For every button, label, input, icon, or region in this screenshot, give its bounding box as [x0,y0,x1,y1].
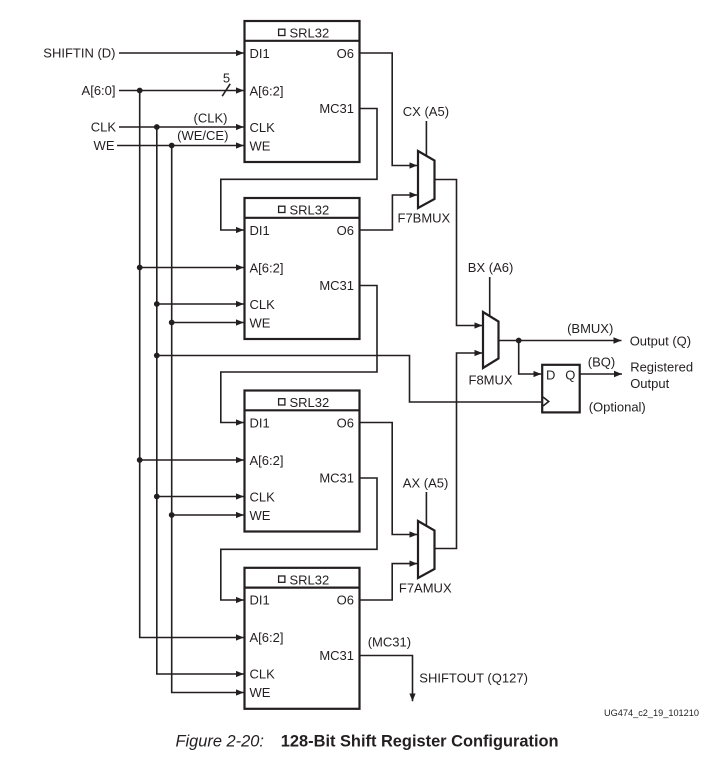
svg-text:WE: WE [250,508,271,523]
svg-text:F8MUX: F8MUX [469,372,513,387]
svg-text:CLK: CLK [250,297,276,312]
svg-text:SRL32: SRL32 [290,26,330,41]
svg-text:Q: Q [565,368,575,383]
svg-text:MC31: MC31 [319,101,354,116]
svg-text:WE: WE [250,138,271,153]
svg-text:O6: O6 [337,593,354,608]
svg-text:O6: O6 [337,415,354,430]
svg-text:DI1: DI1 [250,223,270,238]
svg-text:Output: Output [630,376,669,391]
svg-text:(WE/CE): (WE/CE) [177,128,228,143]
svg-text:DI1: DI1 [250,415,270,430]
svg-text:O6: O6 [337,46,354,61]
svg-text:CLK: CLK [250,120,276,135]
svg-text:Registered: Registered [630,360,693,375]
svg-text:(MC31): (MC31) [368,634,411,649]
svg-text:F7AMUX: F7AMUX [399,581,452,596]
svg-text:DI1: DI1 [250,46,270,61]
svg-text:(BQ): (BQ) [588,354,615,369]
svg-text:BX (A6): BX (A6) [468,260,514,275]
svg-text:CLK: CLK [91,120,117,135]
svg-text:MC31: MC31 [319,278,354,293]
svg-text:F7BMUX: F7BMUX [398,210,451,225]
svg-text:DI1: DI1 [250,593,270,608]
svg-text:(CLK): (CLK) [194,110,228,125]
svg-text:CX (A5): CX (A5) [403,104,449,119]
svg-text:WE: WE [94,138,115,153]
svg-text:SHIFTOUT (Q127): SHIFTOUT (Q127) [419,670,528,685]
svg-text:O6: O6 [337,223,354,238]
svg-text:A[6:2]: A[6:2] [250,630,284,645]
svg-text:SRL32: SRL32 [290,572,330,587]
svg-text:MC31: MC31 [319,471,354,486]
svg-text:MC31: MC31 [319,648,354,663]
svg-text:SRL32: SRL32 [290,203,330,218]
svg-text:5: 5 [223,71,230,86]
svg-text:AX (A5): AX (A5) [403,475,449,490]
svg-text:(BMUX): (BMUX) [567,321,613,336]
svg-text:CLK: CLK [250,667,276,682]
svg-text:A[6:0]: A[6:0] [82,83,116,98]
svg-text:A[6:2]: A[6:2] [250,453,284,468]
svg-text:SRL32: SRL32 [290,395,330,410]
svg-text:A[6:2]: A[6:2] [250,260,284,275]
svg-text:Figure 2-20:: Figure 2-20: [176,733,264,751]
svg-text:SHIFTIN (D): SHIFTIN (D) [43,46,115,61]
svg-text:Output (Q): Output (Q) [630,334,691,349]
svg-text:D: D [546,368,555,383]
svg-text:WE: WE [250,315,271,330]
svg-text:128-Bit Shift Register Configu: 128-Bit Shift Register Configuration [281,733,559,751]
svg-text:UG474_c2_19_101210: UG474_c2_19_101210 [604,708,699,718]
svg-text:WE: WE [250,685,271,700]
svg-text:CLK: CLK [250,489,276,504]
svg-text:(Optional): (Optional) [589,399,646,414]
svg-text:A[6:2]: A[6:2] [250,83,284,98]
